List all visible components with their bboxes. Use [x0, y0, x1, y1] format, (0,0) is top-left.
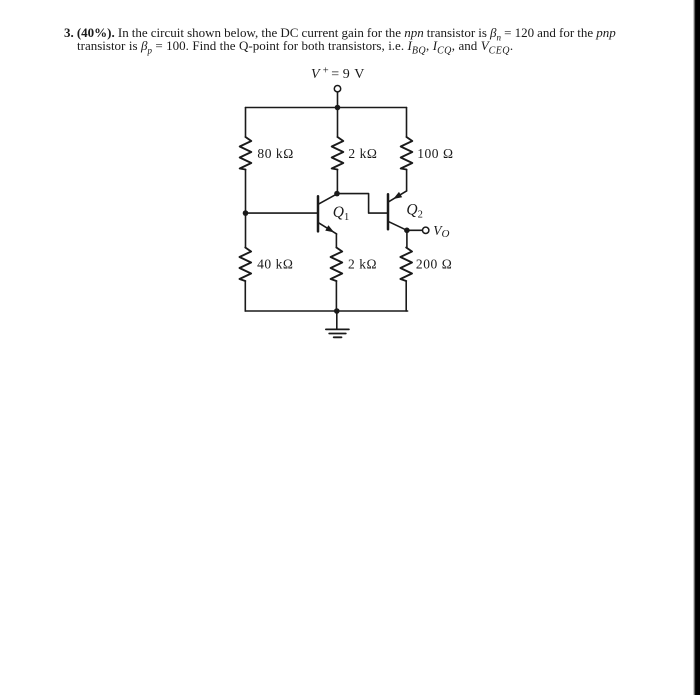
svg-text:2 kΩ: 2 kΩ — [348, 257, 377, 272]
svg-text:+: + — [323, 65, 329, 76]
svg-text:VO: VO — [433, 223, 449, 240]
svg-text:9: 9 — [343, 67, 350, 82]
svg-text:100 Ω: 100 Ω — [417, 146, 453, 161]
svg-text:V: V — [311, 67, 321, 82]
svg-text:Q2: Q2 — [406, 202, 422, 221]
svg-text:2 kΩ: 2 kΩ — [348, 146, 377, 161]
svg-text:Q1: Q1 — [333, 204, 349, 223]
svg-text:=: = — [331, 67, 339, 82]
svg-text:V: V — [354, 67, 364, 82]
svg-text:40 kΩ: 40 kΩ — [257, 257, 293, 272]
svg-text:200 Ω: 200 Ω — [416, 257, 452, 272]
svg-text:80 kΩ: 80 kΩ — [257, 146, 293, 161]
